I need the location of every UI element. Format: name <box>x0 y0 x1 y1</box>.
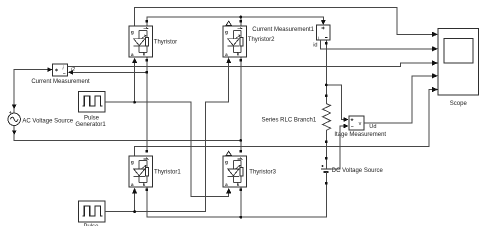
DC voltage source (battery) <box>321 165 331 172</box>
wire Pulse Generator1 output line <box>105 102 229 197</box>
svg-text:Series RLC Branch1: Series RLC Branch1 <box>262 118 317 124</box>
wire id signal CM1 i to scope input 2 <box>321 40 433 49</box>
port dot Thyristor2 k stub <box>240 20 242 22</box>
node pulse1-gate junction <box>133 101 136 104</box>
node AC1-CM junction <box>145 71 148 74</box>
port dot RLC bottom <box>325 140 328 143</box>
svg-text:Thyristor: Thyristor <box>154 40 177 46</box>
svg-text:Scope: Scope <box>450 101 468 107</box>
port dot Thyristor k stub <box>146 20 148 22</box>
wire CM1 - down through RLC branch to battery <box>325 40 327 183</box>
svg-text:Current Measurement: Current Measurement <box>31 79 90 85</box>
current measurement CM <box>53 64 68 76</box>
thyristor Thyristor2 <box>223 26 247 57</box>
port dot battery top <box>325 157 328 160</box>
svg-text:Generator1: Generator1 <box>75 122 106 128</box>
port dot Thyristor2 a <box>240 59 242 61</box>
port dot Thyristor1 a <box>146 188 148 190</box>
wire i2 signal CM i to scope input 3 <box>68 63 433 67</box>
port dot CM1 minus <box>325 42 328 45</box>
svg-text:Ud: Ud <box>369 124 376 130</box>
wire AC node2 vertical (Thyristor2 a / Thyristor3 k) <box>240 57 242 151</box>
svg-text:Pulse: Pulse <box>83 224 99 226</box>
arrow into scope input 4 <box>432 73 438 78</box>
thyristor Thyristor <box>129 26 153 57</box>
port dot RLC top <box>325 95 328 98</box>
node DC+ T2k junction <box>239 16 242 19</box>
thyristor Thyristor3 <box>223 156 247 187</box>
arrow into scope input 5 <box>432 87 438 92</box>
pulse generator Pulse Generator (bottom) <box>79 201 105 222</box>
arrow into AC source top (down) <box>12 105 17 110</box>
arrow into CM1 plus (pointing down) <box>321 20 326 25</box>
svg-text:Pulse: Pulse <box>84 115 100 121</box>
wire Thyristor3 a down to DC- bus <box>240 188 242 218</box>
arrow into Thyristor gate <box>132 58 137 64</box>
port dot Thyristor a <box>146 59 148 61</box>
svg-text:Itage Measurement: Itage Measurement <box>334 132 386 138</box>
svg-text:Current Measurement1: Current Measurement1 <box>252 27 314 33</box>
svg-text:Thyristor3: Thyristor3 <box>249 170 276 176</box>
arrow into scope input 2 <box>432 46 438 51</box>
svg-text:id: id <box>313 42 317 48</box>
port dot Thyristor1 k top <box>146 150 148 152</box>
arrow into CM minus (pointing left) <box>68 70 73 75</box>
pulse generator Pulse Generator1 <box>79 92 105 113</box>
wire AC node1 vertical (Thyristor a / Thyristor1 k) <box>146 57 148 151</box>
hollow arrow Thyristor2 m unconnected <box>226 21 231 25</box>
arrow into VM plus <box>344 117 349 122</box>
scope block <box>438 29 478 96</box>
arrow into scope input 1 <box>432 32 438 37</box>
wire Thyristor2 k stub <box>240 17 242 25</box>
wire AC source top to CM + <box>14 70 48 114</box>
svg-text:Thyristor2: Thyristor2 <box>248 37 275 43</box>
arrow into CM plus <box>47 67 52 72</box>
arrow below AC source (down) <box>12 130 17 135</box>
port dot Thyristor3 k top <box>240 150 242 152</box>
port dot battery bottom <box>325 182 328 185</box>
arrow into scope input 3 <box>432 60 438 65</box>
wire Thyristor1 a to DC- bus to battery bottom <box>147 183 326 217</box>
wire Thyristor1 m to scope input 5 <box>135 90 433 156</box>
wire AC node1 junction stub <box>146 71 148 73</box>
wire DC+ bus: Thyristor k up and right to CM1 + <box>147 17 323 25</box>
wire Thyristor1 gate branch <box>134 192 136 211</box>
port dot Thyristor3 a <box>240 188 242 190</box>
wire Pulse Generator output line A <box>105 62 229 211</box>
arrow into Thyristor3 gate <box>226 188 231 194</box>
node DC load VM+ junction <box>325 84 328 87</box>
node AC2 junction <box>239 139 242 142</box>
svg-text:Thyristor1: Thyristor1 <box>154 169 181 175</box>
wire VM - branch <box>331 126 345 169</box>
node DC- T3a junction <box>239 216 242 219</box>
arrow into VM minus <box>344 124 349 129</box>
node pulse2-T1gate junction <box>133 210 136 213</box>
wire VM + branch <box>326 85 344 120</box>
series RLC branch (resistor) <box>323 96 331 142</box>
svg-text:i2: i2 <box>71 67 75 73</box>
wire AC source bottom bus to AC node2 <box>14 126 241 141</box>
wire Ud signal VM to scope input 4 <box>364 76 433 123</box>
AC voltage source <box>8 111 20 125</box>
wire Thyristor gate branch <box>134 62 136 102</box>
current measurement1 CM1 <box>317 25 330 40</box>
svg-text:AC Voltage Source: AC Voltage Source <box>22 119 73 125</box>
thyristor Thyristor1 <box>129 156 153 187</box>
wire Thyristor m output to scope input 1 (top line) <box>135 7 433 34</box>
arrow into Thyristor1 gate <box>132 188 137 194</box>
hollow arrow Thyristor3 m unconnected <box>226 151 231 155</box>
svg-text:v: v <box>359 121 362 127</box>
wire CM - to AC node1 <box>73 71 147 73</box>
arrow into Thyristor2 gate <box>226 58 231 64</box>
voltage measurement VM <box>349 116 364 130</box>
